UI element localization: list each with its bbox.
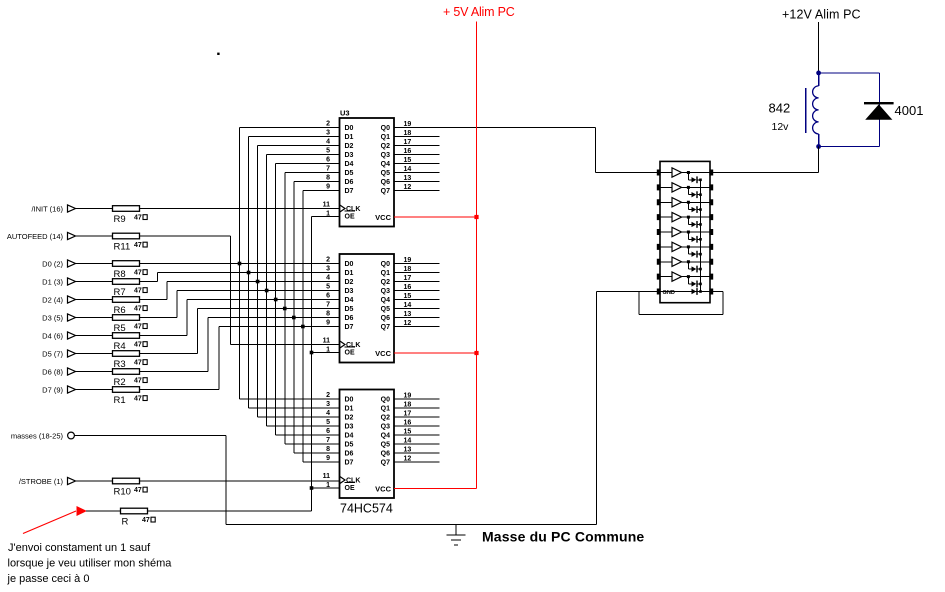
svg-text:Q4: Q4 [381,297,390,304]
wire relay bottom branch [819,146,880,148]
svg-text:Q4: Q4 [381,161,390,168]
svg-text:OE: OE [345,214,355,221]
R9 reference label [114,214,126,225]
wire U3 Q5 output stub [394,443,440,445]
wire U1 pin D2 horizontal [258,145,340,147]
svg-text:842: 842 [769,101,791,116]
wire AUTOFEED vertical to U2 CLK [229,236,231,345]
svg-text:R10: R10 [114,487,131,498]
wire masses horizontal [75,435,227,437]
svg-text:OE: OE [345,485,355,492]
wire U2 Q1 output stub [394,272,440,274]
svg-text:Q5: Q5 [381,442,390,449]
wire /INIT (16) to R9 [78,208,113,210]
svg-text:4: 4 [326,410,330,417]
svg-text:D6: D6 [345,451,354,458]
svg-text:13: 13 [404,311,412,318]
wire U1 Q0 output long [394,128,660,173]
input connector D6 (8) [42,367,78,376]
wire red arrow to R [86,510,121,512]
resistor R6 [113,297,140,303]
svg-text:8: 8 [326,175,330,182]
svg-text:D7: D7 [345,188,354,195]
driver diode common bus [700,180,702,292]
svg-text:D6: D6 [345,315,354,322]
svg-text:D4: D4 [345,161,354,168]
driver channel 6 clamp diode [688,247,701,258]
wire D6 (8) to R2 [78,371,113,373]
driver channel 5 buffer [660,227,710,236]
wire D4 step vertical [186,300,188,336]
wire data bus vertical D0 [239,128,241,400]
wire masses vertical to ground bus [225,436,227,525]
R3 reference label [114,359,126,370]
svg-text:D0: D0 [345,125,354,132]
resistor R3 [113,351,140,357]
svg-text:47: 47 [134,215,142,222]
svg-text:D4: D4 [345,433,354,440]
svg-text:D3 (5): D3 (5) [42,313,63,322]
svg-text:R1: R1 [114,395,126,406]
svg-text:6: 6 [326,293,330,300]
svg-text:16: 16 [404,284,412,291]
wire D3 step vertical [176,291,178,318]
resistor R5 [113,315,140,321]
U1 D0-D7 input pin labels [345,125,354,195]
svg-text:Q0: Q0 [381,261,390,268]
svg-text:17: 17 [404,275,412,282]
U2 OE pin label (active low, overline) [345,347,356,357]
wire /INIT to U1 CLK pin 11 [140,208,340,210]
svg-text:4001: 4001 [895,103,924,118]
driver channel 8 buffer [660,272,710,281]
wire U1 pin D0 horizontal [240,127,340,129]
svg-text:+12V Alim PC: +12V Alim PC [782,8,861,22]
input connector D0 (2) [42,259,78,268]
wire data bus vertical D2 [257,146,259,418]
svg-text:47: 47 [134,342,142,349]
wire D4 row to U2 pin D4 [187,299,340,301]
svg-text:47: 47 [134,270,142,277]
svg-text:D3: D3 [345,152,354,159]
svg-text:3: 3 [326,266,330,273]
svg-text:2: 2 [326,121,330,128]
svg-text:12v: 12v [772,121,790,133]
svg-text:lorsque je veu utiliser mon sh: lorsque je veu utiliser mon shéma [8,558,173,570]
svg-text:11: 11 [323,202,331,209]
R4 value 47 ohm [134,342,147,349]
driver channel 8 clamp diode [688,277,701,288]
U3 VCC pin label [375,484,391,493]
wire U1 pin D5 horizontal [285,172,340,174]
svg-text:CLK: CLK [346,206,360,213]
wire driver COM loop [639,292,723,315]
svg-text:9: 9 [326,455,330,462]
junction bus D0 at U2 row [238,262,242,266]
svg-text:47: 47 [134,487,142,494]
svg-text:D0 (2): D0 (2) [42,259,63,268]
svg-text:Q6: Q6 [381,451,390,458]
svg-text:4: 4 [326,275,330,282]
resistor R8 [113,261,140,267]
svg-text:D7: D7 [345,460,354,467]
svg-text:14: 14 [404,166,412,173]
wire data bus vertical D1 [248,137,250,409]
svg-text:VCC: VCC [375,349,391,358]
U3 left pin numbers 2-9, 11, 1 [323,392,331,489]
svg-text:16: 16 [404,420,412,427]
svg-text:47: 47 [134,396,142,403]
svg-text:19: 19 [404,393,412,400]
U2 CLK pin label with clock wedge [340,341,361,349]
wire U3 pin D6 horizontal [294,452,340,454]
U3 right pin numbers 19-12 [404,393,412,463]
wire +5V to U3 VCC [394,488,477,490]
wire relay output down to driver [713,147,818,173]
svg-text:47: 47 [142,517,150,524]
R3 value 47 ohm [134,360,147,367]
svg-text:Q2: Q2 [381,415,390,422]
wire U1 OE to OE bus [312,216,340,218]
wire U1 pin D1 horizontal [249,136,340,138]
wire U1 Q5 output stub [394,172,440,174]
R5 reference label [114,323,126,334]
node stray dot [217,53,219,55]
svg-text:Q6: Q6 [381,179,390,186]
junction bus D7 at U2 row [301,325,305,329]
svg-text:Q2: Q2 [381,279,390,286]
+5V Alim PC label [443,5,515,19]
driver GND row and label [660,290,710,296]
driver channel 2 clamp diode [688,187,701,198]
resistor R4 [113,333,140,339]
U2 D0-D7 input pin labels [345,261,354,331]
svg-text:D1 (3): D1 (3) [42,277,63,286]
U3 CLK pin label with clock wedge [340,476,361,484]
wire U3 Q3 output stub [394,425,440,427]
svg-text:47: 47 [134,306,142,313]
wire +5V to U1 VCC [394,216,477,218]
relay value label 12v [772,121,790,133]
wire D3 (5) to R5 [78,317,113,319]
svg-text:6: 6 [326,157,330,164]
driver channel 7 buffer [660,257,710,266]
wire U3 Q2 output stub [394,416,440,418]
svg-text:R9: R9 [114,214,126,225]
svg-text:18: 18 [404,130,412,137]
svg-text:15: 15 [404,293,412,300]
resistor R2 [113,369,140,375]
R8 value 47 ohm [134,270,147,277]
svg-text:Q3: Q3 [381,288,390,295]
R9 value 47 ohm [134,215,147,222]
driver channel 3 clamp diode [688,202,701,213]
svg-text:D4 (6): D4 (6) [42,331,63,340]
IC U2 74HC574 body [340,254,395,363]
wire U1 Q7 output stub [394,190,440,192]
wire D1 step vertical [157,273,159,282]
svg-text:12: 12 [404,456,412,463]
svg-text:Q1: Q1 [381,406,390,413]
U1 VCC pin label [375,213,391,222]
svg-text:47: 47 [134,288,142,295]
wire D4 input from R to step [140,335,188,337]
R2 value 47 ohm [134,378,147,385]
input connector D3 (5) [42,313,78,322]
svg-text:11: 11 [323,338,331,345]
wire U2 Q5 output stub [394,308,440,310]
svg-text:AUTOFEED (14): AUTOFEED (14) [7,232,64,241]
svg-text:47: 47 [134,378,142,385]
R6 value 47 ohm [134,306,147,313]
svg-text:Q2: Q2 [381,143,390,150]
driver channel 7 clamp diode [688,262,701,273]
wire relay top branch [819,73,880,147]
svg-text:D5: D5 [345,442,354,449]
wire D2 input from R to step [140,299,168,301]
wire data bus vertical D4 [275,164,277,436]
svg-text:D0: D0 [345,261,354,268]
wire D2 row to U2 pin D2 [167,281,340,283]
svg-text:13: 13 [404,175,412,182]
R10 reference label [114,487,131,498]
R value 47 ohm [142,517,155,524]
wire data bus vertical D5 [284,173,286,445]
svg-text:7: 7 [326,437,330,444]
U1 designator label U3 above top chip [340,109,350,118]
wire U2 OE stub [312,352,340,354]
svg-text:Q1: Q1 [381,134,390,141]
U3 OE pin label (active low, overline) [345,483,356,493]
svg-text:Q7: Q7 [381,324,390,331]
+12V Alim PC label [782,8,861,22]
wire D5 row to U2 pin D5 [198,308,340,310]
wire U1 Q4 output stub [394,163,440,165]
wire +5V to U2 VCC [394,352,477,354]
input connector masses (18-25) [11,431,75,440]
wire U1 Q1 output stub [394,136,440,138]
wire D2 (4) to R6 [78,299,113,301]
junction bus D1 at U2 row [247,271,251,275]
wire D7 row to U2 pin D7 [219,326,340,328]
wire D7 step vertical [218,327,220,390]
wire +5V vertical rail [476,22,478,489]
wire U3 pin D7 horizontal [303,461,340,463]
wire D7 (9) to R1 [78,389,113,391]
svg-text:CLK: CLK [346,478,360,485]
svg-text:Q4: Q4 [381,433,390,440]
svg-text:8: 8 [326,311,330,318]
R5 value 47 ohm [134,324,147,331]
wire R to OE bus [148,510,312,512]
svg-text:47: 47 [134,360,142,367]
red annotation leader line [23,511,76,534]
svg-text:D3: D3 [345,424,354,431]
wire U3 pin D5 horizontal [285,443,340,445]
svg-text:5: 5 [326,284,330,291]
wire U3 Q0 output stub [394,398,440,400]
wire U2 Q6 output stub [394,317,440,319]
wire R10 to U3 CLK pin 11 [140,480,340,482]
input connector AUTOFEED (14) [7,232,78,241]
svg-text:+ 5V Alim PC: + 5V Alim PC [443,5,515,19]
svg-text:Q3: Q3 [381,152,390,159]
svg-text:U3: U3 [340,109,350,118]
svg-text:Q0: Q0 [381,125,390,132]
wire OE bus vertical [311,217,313,512]
R10 value 47 ohm [134,487,147,494]
junction bus D5 at U2 row [283,307,287,311]
driver channel 4 buffer [660,212,710,221]
input connector D4 (6) [42,331,78,340]
flyback diode D1 [864,102,894,120]
svg-text:9: 9 [326,184,330,191]
wire D3 row to U2 pin D3 [177,290,340,292]
junction OE bus at U2 [310,351,314,355]
svg-text:15: 15 [404,157,412,164]
wire data bus vertical D3 [266,155,268,427]
wire U1 Q6 output stub [394,181,440,183]
svg-text:D6 (8): D6 (8) [42,367,63,376]
svg-text:8: 8 [326,446,330,453]
svg-text:Q6: Q6 [381,315,390,322]
wire U1 pin D3 horizontal [267,154,340,156]
driver channel 1 clamp diode [688,173,701,184]
U1 OE pin label (active low, overline) [345,211,356,221]
svg-text:12: 12 [404,320,412,327]
wire D7 input from R to step [140,389,220,391]
svg-text:GND: GND [663,290,675,296]
svg-text:Masse du PC Commune: Masse du PC Commune [482,529,644,545]
svg-text:D2: D2 [345,415,354,422]
wire ground riser to driver GND [597,292,661,525]
R1 reference label [114,395,126,406]
U2 left pin numbers 2-9, 11, 1 [323,257,331,354]
svg-text:5: 5 [326,419,330,426]
svg-text:R11: R11 [114,242,131,253]
wire U2 Q4 output stub [394,299,440,301]
part number label 74HC574 below bottom chip [340,502,393,516]
IC U1 74HC574 body [340,118,395,227]
junction relay bottom [816,144,821,149]
junction +5V at U2 VCC [474,351,478,355]
wire D3 input from R to step [140,317,178,319]
wire U2 Q0 output stub [394,263,440,265]
wire U3 pin D1 horizontal [249,407,340,409]
junction bus D4 at U2 row [274,298,278,302]
svg-text:D3: D3 [345,288,354,295]
svg-text:7: 7 [326,166,330,173]
svg-text:D0: D0 [345,397,354,404]
wire D4 (6) to R4 [78,335,113,337]
svg-text:19: 19 [404,121,412,128]
svg-text:D1: D1 [345,406,354,413]
U3 Q0-Q7 output pin labels [381,397,390,467]
svg-text:/STROBE (1): /STROBE (1) [19,477,64,486]
svg-text:2: 2 [326,392,330,399]
resistor R10 [113,478,140,484]
svg-text:17: 17 [404,139,412,146]
R7 value 47 ohm [134,288,147,295]
resistor R [121,508,148,514]
wire U1 pin D6 horizontal [294,181,340,183]
svg-text:Q5: Q5 [381,170,390,177]
wire AUTOFEED horizontal [140,235,231,237]
svg-text:D7: D7 [345,324,354,331]
svg-text:Q0: Q0 [381,397,390,404]
svg-text:16: 16 [404,148,412,155]
svg-text:11: 11 [323,473,331,480]
wire D5 step vertical [197,309,199,354]
U1 left pin numbers 2-9, 11, 1 [323,121,331,218]
svg-text:Q7: Q7 [381,188,390,195]
R6 reference label [114,305,126,316]
driver channel 3 buffer [660,198,710,207]
svg-text:5: 5 [326,148,330,155]
junction bus D3 at U2 row [265,289,269,293]
driver channel 1 buffer [660,168,710,177]
wire U1 Q2 output stub [394,145,440,147]
svg-text:47: 47 [134,242,142,249]
R7 reference label [114,287,126,298]
svg-text:OE: OE [345,350,355,357]
svg-text:/INIT (16): /INIT (16) [31,204,63,213]
R2 reference label [114,377,126,388]
IC U3 74HC574 body [340,390,395,499]
wire D5 input from R to step [140,353,198,355]
svg-text:14: 14 [404,438,412,445]
wire U3 pin D4 horizontal [276,434,340,436]
R4 reference label [114,341,126,352]
wire D1 row to U2 pin D1 [158,272,340,274]
svg-text:VCC: VCC [375,213,391,222]
svg-text:3: 3 [326,130,330,137]
svg-text:3: 3 [326,401,330,408]
input connector /STROBE (1) [19,477,78,486]
R reference label [122,517,129,528]
U2 Q0-Q7 output pin labels [381,261,390,331]
svg-text:D5 (7): D5 (7) [42,349,63,358]
resistor R7 [113,279,140,285]
svg-text:D1: D1 [345,134,354,141]
svg-text:Q7: Q7 [381,460,390,467]
svg-text:6: 6 [326,428,330,435]
red arrow input (strobe enable) [77,507,86,515]
svg-text:D2 (4): D2 (4) [42,295,63,304]
svg-text:13: 13 [404,447,412,454]
wire data bus vertical D7 [302,191,304,463]
R1 value 47 ohm [134,396,147,403]
wire U3 pin D0 horizontal [240,398,340,400]
driver channel 5 clamp diode [688,232,701,243]
svg-text:D4: D4 [345,297,354,304]
U1 Q0-Q7 output pin labels [381,125,390,195]
driver channel 4 clamp diode [688,217,701,228]
wire D1 (3) to R7 [78,281,113,283]
wire D6 input from R to step [140,371,209,373]
wire U3 Q7 output stub [394,461,440,463]
svg-text:D2: D2 [345,279,354,286]
label Masse du PC Commune [482,529,644,545]
wire U2 Q3 output stub [394,290,440,292]
wire U3 Q6 output stub [394,452,440,454]
wire AUTOFEED (14) to R11 [78,235,113,237]
svg-text:47: 47 [134,324,142,331]
driver IC pin stubs [657,170,713,295]
svg-text:D5: D5 [345,170,354,177]
wire D1 input from R to step [140,281,158,283]
U2 VCC pin label [375,349,391,358]
